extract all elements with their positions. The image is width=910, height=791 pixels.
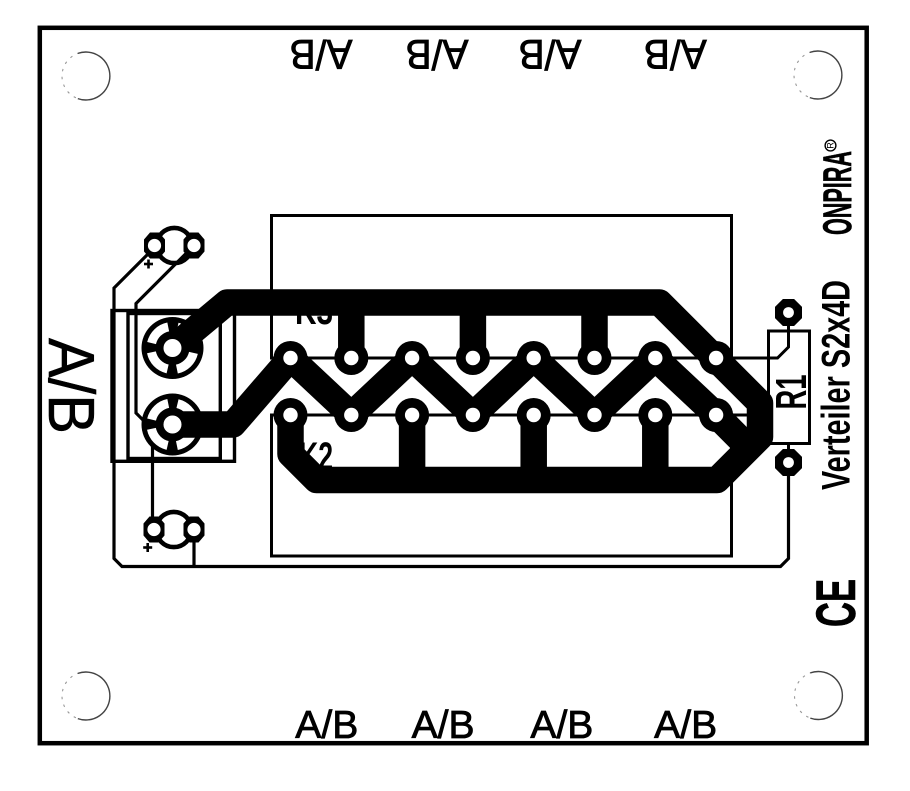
jumper J1 holes xyxy=(148,239,161,252)
hole R1 top xyxy=(783,307,794,318)
mounting hole top-right xyxy=(794,51,842,99)
pads K3 row1 xyxy=(274,341,734,375)
svg-text:R1: R1 xyxy=(767,375,816,410)
trace net A stub col1 xyxy=(338,303,365,359)
pad R1 bottom xyxy=(775,449,802,476)
jumper J2 ring xyxy=(156,512,191,547)
svg-text:A/B: A/B xyxy=(519,31,582,78)
pad X1-2 thermal xyxy=(142,394,204,456)
label registered trademark xyxy=(825,140,836,151)
trace net A stub col2 row2 xyxy=(399,415,426,480)
wire jumper J1 right pad to jumper J2 left pad xyxy=(136,249,191,524)
hole X1-1 xyxy=(164,339,182,357)
mounting hole top-left xyxy=(62,52,110,100)
jumper J2 left pad xyxy=(144,517,165,543)
holes K2 row2 xyxy=(283,408,723,422)
jumper J2 plus sign xyxy=(143,543,152,552)
hole R1 bottom xyxy=(783,457,794,468)
svg-text:CE: CE xyxy=(804,579,867,627)
svg-text:Verteiler S2x4D: Verteiler S2x4D xyxy=(815,280,859,490)
jumper J1 plus sign xyxy=(144,260,153,269)
svg-text:A/B: A/B xyxy=(654,704,717,747)
holes K3 row1 xyxy=(283,351,723,365)
wire R1 bottom pad stub xyxy=(787,444,790,464)
jumper J1 right pad xyxy=(184,233,205,259)
svg-text:A/B: A/B xyxy=(295,704,358,747)
mounting hole bottom-right xyxy=(795,672,843,720)
pad X1-1 thermal xyxy=(142,317,204,379)
connector X1 outline outer xyxy=(112,311,235,462)
trace net A stub col5 xyxy=(581,303,608,359)
svg-text:A/B: A/B xyxy=(412,704,475,747)
pad R1 top xyxy=(775,299,802,326)
svg-text:A/B: A/B xyxy=(406,31,469,78)
wire jumper J2 right pad down xyxy=(192,533,195,567)
trace net A bus xyxy=(173,303,761,481)
wire row2 trace to R1 left edge xyxy=(272,415,770,444)
resistor R1 body outline xyxy=(769,331,810,444)
svg-text:R: R xyxy=(826,142,836,149)
hole X1-2 xyxy=(164,416,182,434)
svg-text:A/B: A/B xyxy=(35,338,108,434)
mounting hole bottom-left xyxy=(62,672,110,720)
svg-text:ONPIRA: ONPIRA xyxy=(816,151,860,235)
trace net B zigzag xyxy=(173,358,742,440)
jumper J1 left pad xyxy=(144,233,165,259)
svg-text:A/B: A/B xyxy=(530,704,593,747)
connector K3 outline xyxy=(272,216,732,359)
connector K2 outline xyxy=(272,415,732,556)
connector X1 outline inner xyxy=(128,314,220,459)
wire jumper J1 left pad to R1 bottom pad xyxy=(114,250,789,567)
jumper J2 holes xyxy=(147,523,160,536)
jumper J1 ring xyxy=(157,228,192,263)
pads K2 row2 xyxy=(274,398,734,432)
svg-text:A/B: A/B xyxy=(290,31,353,78)
trace net A stub col6 row2 xyxy=(642,415,669,480)
trace net A stub col4 row2 xyxy=(520,415,547,480)
trace net A stub col3 xyxy=(460,303,487,359)
jumper J2 right pad xyxy=(184,517,205,543)
wire row1 trace to R1 top pad xyxy=(272,313,789,358)
svg-text:A/B: A/B xyxy=(644,31,707,78)
